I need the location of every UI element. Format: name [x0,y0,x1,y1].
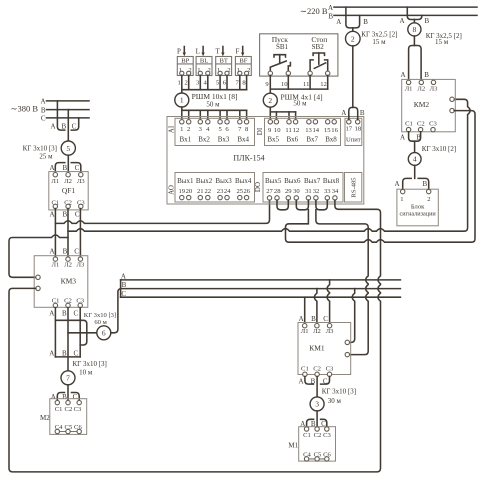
svg-text:A: A [49,349,54,357]
wire sensor core 4 [207,75,209,89]
wire line A to KM1 L3 [327,280,330,324]
wire bus 220V phase B [334,14,477,16]
svg-text:C: C [72,122,77,130]
svg-text:ВР: ВР [181,58,189,65]
svg-text:P: P [177,47,181,55]
wire bus 380V phase B [47,109,90,111]
svg-text:Л2: Л2 [313,328,321,335]
svg-text:QF1: QF1 [62,186,76,195]
wire t32 to KM1 right terminal 2 [316,210,368,355]
wire phase B QF1 to KM3 [67,209,69,257]
svg-text:C3: C3 [74,406,82,413]
svg-text:ПЛК-154: ПЛК-154 [233,153,264,162]
svg-text:Л1: Л1 [51,178,59,185]
svg-text:Л1: Л1 [405,86,413,93]
svg-text:A: A [49,211,54,219]
svg-text:15: 15 [324,127,331,134]
svg-text:10 м: 10 м [79,368,93,376]
svg-text:A: A [298,377,303,385]
svg-text:B: B [62,211,67,219]
wire bus2 phase B to KM2 right terminal 1 [68,99,470,231]
svg-text:A: A [51,393,56,401]
svg-text:C2: C2 [65,406,73,413]
svg-text:A: A [328,4,333,12]
wire line C to KM1 L1 [304,297,306,323]
svg-text:Л1: Л1 [52,261,60,268]
svg-text:RS-485: RS-485 [351,177,358,198]
svg-text:A: A [394,180,399,188]
PLC AO section [175,173,255,203]
svg-text:6: 6 [102,329,106,338]
svg-text:15 м: 15 м [435,38,449,46]
svg-text:B: B [62,349,67,357]
svg-text:C2: C2 [314,432,322,439]
wire cable2 down to Upit split [352,46,354,108]
sensor BF [235,57,251,76]
cable marker 8 [408,23,421,36]
svg-text:Вх1: Вх1 [180,135,192,143]
wire sensor core 7 [239,75,241,89]
svg-text:Вых7: Вых7 [304,177,321,185]
svg-text:30 м: 30 м [328,397,342,405]
svg-text:C: C [75,164,80,172]
svg-text:16: 16 [331,127,338,134]
svg-text:C: C [323,315,328,323]
svg-text:C: C [75,211,80,219]
wire split bracket left to M2 C1 [57,393,64,401]
svg-text:Вх4: Вх4 [237,135,249,143]
svg-text:C: C [73,393,78,401]
svg-text:SB1: SB1 [276,43,289,51]
svg-text:КГ 3х10 [3]: КГ 3х10 [3] [322,388,356,396]
wire sensor core 5 [219,75,221,89]
svg-text:A: A [400,71,405,79]
svg-text:Вх3: Вх3 [218,135,230,143]
svg-text:A: A [336,18,341,26]
wire line B to KM1 L2 [314,289,317,324]
PLC AI section [175,118,255,145]
svg-text:B: B [360,109,365,117]
svg-text:Вх6: Вх6 [287,135,299,143]
svg-text:Uпит: Uпит [346,137,361,144]
svg-text:4: 4 [413,155,417,164]
svg-text:C1: C1 [405,121,413,128]
svg-text:F: F [235,47,239,55]
svg-text:B: B [61,122,66,130]
svg-text:30: 30 [293,188,300,195]
svg-text:A: A [40,98,45,106]
wire jumper t30-t31 [296,200,308,210]
svg-text:Л1: Л1 [301,328,309,335]
svg-text:М2: М2 [40,414,50,422]
svg-text:C: C [73,349,78,357]
svg-text:12: 12 [320,81,327,88]
wire drop B to cable 5 [67,110,69,141]
svg-text:1: 1 [400,196,403,203]
svg-text:КГ 3х10 [2]: КГ 3х10 [2] [422,145,456,153]
svg-text:25 м: 25 м [39,152,53,160]
svg-text:A: A [49,248,54,256]
svg-text:C1: C1 [55,406,63,413]
svg-text:12: 12 [293,127,300,134]
svg-text:КМ2: КМ2 [414,100,430,109]
wire split bracket right to QF1 L3 [71,163,81,173]
wire KM1 C1 merge [305,377,314,385]
svg-text:DO: DO [254,182,262,192]
svg-text:2: 2 [351,34,355,43]
svg-text:КГ 3х10 [3]: КГ 3х10 [3] [84,312,116,319]
cable marker 4 [408,153,421,166]
svg-text:27: 27 [266,188,273,195]
PLC Upit section [345,118,362,145]
svg-text:1: 1 [180,96,184,105]
svg-text:29: 29 [285,188,292,195]
wire SB core 11 [309,76,311,90]
wire SB core 9 [269,76,271,94]
svg-text:3: 3 [315,400,319,409]
wire split bracket left to QF1 L1 [55,163,65,173]
svg-text:T: T [215,47,220,55]
svg-text:7: 7 [66,374,70,383]
svg-text:17: 17 [346,125,353,132]
svg-text:C2: C2 [417,121,425,128]
PLC DO section [263,173,343,203]
wire drop A + merge bracket left [57,101,64,130]
wire cable3 to M1 [316,411,318,427]
svg-text:Л3: Л3 [77,261,85,268]
wire drop C + merge bracket right [71,118,78,130]
svg-text:Вх5: Вх5 [267,135,279,143]
wire SB core 12 [327,76,329,90]
wire cable sheath bar top with right side [55,320,86,345]
wire KM2 C1 C2 merge [409,132,421,141]
wire branch to cable 6 [68,332,97,334]
svg-text:31: 31 [305,188,312,195]
wire cable2 split bar [270,111,295,113]
PLC DI section [265,118,341,145]
svg-text:B: B [63,248,68,256]
svg-text:B: B [424,71,429,79]
svg-text:AI: AI [168,125,176,133]
wire cable2 merge bar [270,88,327,90]
svg-text:Л3: Л3 [430,86,438,93]
wire KM1 C3 merge [321,377,330,385]
wire t34 to bottom rail to KM3 coil T2 [9,200,381,472]
svg-text:18: 18 [355,125,362,132]
wire line B to KM1 right terminal 1 [349,289,354,343]
svg-text:26: 26 [244,188,251,195]
wire split legs to DI terminals [276,112,295,120]
svg-text:60 м: 60 м [94,319,107,326]
wire bus1 phase A to PLC t27 [55,200,269,223]
wire cable1 split bar [182,109,247,111]
svg-text:13: 13 [305,127,312,134]
svg-text:B: B [62,164,67,172]
svg-text:2: 2 [184,79,187,86]
cable marker 2 [263,93,277,107]
wire merge stem [414,141,416,153]
svg-text:L: L [196,47,200,55]
PLC RS-485 section [345,173,362,203]
wire cable7 to M2 [67,385,69,401]
wire 220V drops to cable2 bracket [346,7,360,28]
svg-text:14: 14 [313,127,320,134]
wire phase A QF1 to KM3 [54,209,56,257]
wire split legs to AI terminals [189,110,247,119]
controller PLC-154 outer box [167,117,364,205]
wire bracket stem [413,20,415,24]
svg-text:BF: BF [239,58,247,65]
svg-text:C1: C1 [301,365,309,372]
wire bracket stem [352,28,354,31]
wire M1 star links [309,458,325,460]
svg-text:B: B [328,13,333,21]
wire split bracket right to M1 C3 [321,419,327,427]
svg-text:Вх8: Вх8 [325,135,337,143]
svg-text:5: 5 [66,144,70,153]
signal block Блок сигнализации [397,189,438,226]
svg-text:A: A [299,315,304,323]
svg-text:24: 24 [224,188,231,195]
svg-text:10: 10 [281,81,288,88]
wire sensor core 2 [188,75,190,89]
svg-text:КМ3: КМ3 [61,276,77,285]
svg-text:Л2: Л2 [64,178,72,185]
wire M2 star links [60,431,78,433]
svg-text:A: A [399,17,404,25]
wire bus 380V phase A [47,100,90,102]
wire sensor core 8 [246,75,248,89]
svg-text:Вых4: Вых4 [235,177,252,185]
svg-text:B: B [423,180,428,188]
svg-text:22: 22 [205,188,212,195]
contactor KM3 [34,256,88,308]
sensor BP [177,57,193,76]
wire jumper t32-t33 [316,200,327,210]
wire cable sheath bar bottom [55,356,80,358]
svg-text:АО: АО [168,185,176,195]
wire SB core 10 [287,76,289,90]
svg-text:B: B [363,18,368,26]
wire sensor core 1 to cable1 [181,75,183,93]
svg-text:КГ 3х10 [3]: КГ 3х10 [3] [73,360,107,368]
wire cable4 to split [414,165,416,178]
svg-text:C2: C2 [313,365,321,372]
svg-text:Вых5: Вых5 [265,177,282,185]
wire Upit split bracket [349,107,358,119]
svg-text:B: B [311,315,316,323]
svg-text:Вх7: Вх7 [306,135,318,143]
wire split bar and legs to KM2 L1 L2 [409,46,422,81]
wire split bracket right to M2 C3 [72,393,80,401]
svg-text:C: C [73,310,78,318]
wire line A [121,279,401,281]
svg-text:Блок: Блок [411,203,425,210]
svg-text:2: 2 [268,96,272,105]
svg-text:КГ 3х10 [3]: КГ 3х10 [3] [23,144,57,152]
svg-text:21: 21 [197,188,204,195]
svg-text:Вых8: Вых8 [323,177,340,185]
cable marker 3 [310,397,324,411]
svg-text:1: 1 [180,126,183,133]
svg-text:КМ1: КМ1 [309,343,325,352]
svg-text:32: 32 [313,188,320,195]
svg-text:50 м: 50 м [293,100,307,108]
svg-text:C: C [41,115,46,123]
svg-text:Вх2: Вх2 [198,135,210,143]
motor M1 [299,427,336,461]
motor M2 [50,399,87,435]
wire cable8 to KM2 split [413,36,415,46]
cable marker 7 [61,371,75,385]
svg-text:∼220 В: ∼220 В [300,6,328,16]
svg-text:B: B [425,17,430,25]
circuit breaker QF1 [49,172,88,210]
wire KM3 C2 down to cable 7 [67,308,69,371]
svg-text:A: A [49,164,54,172]
wire cable1 merge bar [182,89,247,91]
wire cable1 to split bar [181,107,183,120]
svg-text:ВТ: ВТ [220,58,228,65]
svg-text:C3: C3 [323,432,331,439]
wire bus3 phase B to left rail and KM3 coil T1 [9,235,68,277]
svg-text:М1: М1 [288,442,298,450]
svg-text:B: B [41,106,46,114]
svg-text:8: 8 [413,25,417,34]
svg-text:BL: BL [200,58,208,65]
svg-text:1: 1 [178,79,181,86]
svg-text:C: C [74,248,79,256]
wire riser from cable6 and line B [111,289,401,333]
svg-text:C1: C1 [303,432,311,439]
svg-text:2: 2 [427,196,430,203]
wire sensor core 6 [226,75,228,89]
cable marker 5 [61,141,75,155]
wire bus 380V phase C [47,117,90,119]
wire cable5 to QF1 [67,155,69,172]
svg-text:33: 33 [324,188,331,195]
sensor BL [196,57,212,76]
cable marker 6 [97,326,111,340]
svg-text:A: A [400,133,405,141]
wire jumper t28-t29 [277,200,288,210]
wire KM1 C2 to cable 3 [316,377,318,397]
svg-text:B: B [62,310,67,318]
wire 220V drops to cable8 bracket [407,7,422,19]
svg-text:Л2: Л2 [64,261,72,268]
sensor BT [216,57,232,76]
wire fan-out bar [120,280,122,297]
wire t31 to bus4 to KM2 right terminal 2 [286,111,476,243]
svg-text:50 м: 50 м [206,100,220,108]
svg-text:сигнализации: сигнализации [399,211,436,218]
svg-text:Л3: Л3 [77,178,85,185]
svg-text:Л2: Л2 [417,86,425,93]
svg-text:11: 11 [303,81,309,88]
wire cable2 to split bar [269,107,271,119]
wire sensor core 3 [199,75,201,89]
svg-text:C3: C3 [429,121,437,128]
svg-text:34: 34 [332,188,339,195]
svg-text:15 м: 15 м [372,38,386,46]
svg-text:28: 28 [274,188,281,195]
wire split bracket left to M1 C1 [307,419,314,427]
wire split bracket legs to signal block [403,178,412,189]
svg-text:C3: C3 [326,365,334,372]
svg-text:11: 11 [285,127,291,134]
wire line C [121,296,401,298]
svg-text:10: 10 [274,127,281,134]
wire bus 220V phase A [334,6,477,8]
svg-text:A: A [50,122,55,130]
svg-text:A: A [341,109,346,117]
svg-text:SB2: SB2 [312,43,325,51]
svg-text:Вых2: Вых2 [196,177,213,185]
svg-text:Вых6: Вых6 [284,177,301,185]
svg-text:2: 2 [187,126,190,133]
cable marker 2 (Upit) [346,31,361,46]
wire KM3 C1 down [54,308,56,357]
svg-text:∼380 В: ∼380 В [10,104,38,114]
svg-text:DI: DI [256,127,264,135]
svg-text:Л3: Л3 [326,328,334,335]
wire phase C QF1 to KM3 [79,209,81,257]
cable marker 1 [175,93,189,107]
svg-text:Вых1: Вых1 [177,177,194,185]
svg-text:Вых3: Вых3 [215,177,232,185]
wire KM3 C3 down [79,308,81,357]
svg-text:20: 20 [186,188,193,195]
svg-text:B: B [62,393,67,401]
svg-text:A: A [49,310,54,318]
